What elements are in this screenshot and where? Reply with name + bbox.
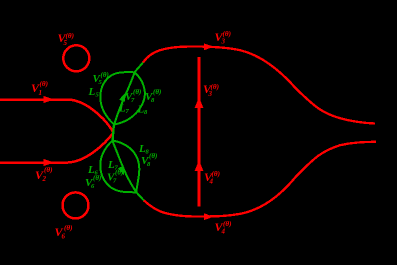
label V3 (top branch)	[215, 30, 232, 46]
green label V6 lower petal outer-left	[85, 174, 101, 190]
svg-text:(θ): (θ)	[66, 32, 75, 40]
label on vertical line upper	[203, 82, 219, 98]
svg-text:(θ): (θ)	[153, 88, 161, 96]
green lower stem to red branch	[136, 192, 144, 200]
red vertical line V	[198, 57, 201, 207]
svg-text:3: 3	[221, 38, 226, 46]
red circle bottom-left	[63, 192, 89, 218]
green label V7 lower petal inside	[107, 169, 123, 185]
green spine through cusp	[113, 124, 115, 142]
label V2 (lower-left line)	[35, 166, 53, 183]
svg-text:1: 1	[39, 89, 43, 97]
green lower petal left arc	[100, 141, 136, 193]
svg-text:6: 6	[91, 183, 95, 190]
svg-text:8: 8	[151, 97, 155, 104]
green upper petal left arc L5	[100, 72, 134, 124]
label on vertical line lower	[204, 170, 220, 186]
arrow on lower-left line	[44, 159, 55, 166]
red lower loop branch	[144, 142, 376, 217]
label V1 (upper-left line)	[31, 80, 48, 97]
svg-text:(θ): (θ)	[93, 174, 101, 182]
arrow on lower diagonal	[118, 166, 127, 176]
svg-text:7: 7	[113, 178, 117, 185]
svg-text:(θ): (θ)	[223, 30, 232, 38]
svg-text:8: 8	[147, 161, 151, 168]
svg-text:5: 5	[96, 92, 100, 99]
red circle top-left	[63, 45, 89, 71]
svg-text:(θ): (θ)	[223, 220, 232, 228]
svg-text:3: 3	[208, 90, 213, 98]
svg-text:(θ): (θ)	[212, 170, 221, 178]
svg-text:2: 2	[42, 175, 47, 183]
green upper diagonal L7	[114, 73, 135, 126]
green label L8 upper petal right	[137, 104, 149, 117]
green label V8 upper petal right	[145, 88, 161, 104]
lower arrow on vertical line	[195, 160, 204, 171]
green label L8 lower petal right	[138, 143, 150, 156]
svg-text:(θ): (θ)	[40, 80, 49, 88]
svg-text:(θ): (θ)	[101, 71, 109, 79]
green label L7 upper petal inside	[118, 103, 130, 116]
green label V7 upper petal inside	[125, 88, 141, 104]
upper arrow on vertical line	[195, 97, 204, 108]
label V5 (top circle)	[58, 31, 75, 47]
green upper petal right arc L8	[114, 73, 145, 125]
green label V8 lower petal right	[141, 152, 157, 168]
svg-text:4: 4	[221, 228, 226, 236]
red upper loop branch	[143, 47, 375, 124]
arrow on red lower branch	[204, 213, 214, 220]
svg-text:8: 8	[144, 109, 148, 116]
svg-text:7: 7	[126, 108, 130, 115]
green label L7 lower petal inside	[107, 159, 119, 172]
green upper stem to red branch	[135, 63, 144, 73]
svg-text:(θ): (θ)	[44, 166, 53, 174]
green label L5 upper petal outer-left	[88, 86, 100, 99]
arrow on upper diagonal	[119, 92, 128, 103]
svg-text:(θ): (θ)	[64, 224, 73, 232]
green label L6 lower petal outer-left	[87, 164, 99, 177]
svg-text:L: L	[88, 86, 96, 98]
label V4 (bottom branch)	[215, 220, 232, 236]
label V6 (bottom circle)	[55, 224, 73, 241]
svg-text:7: 7	[131, 97, 135, 104]
green lower diagonal	[113, 141, 137, 192]
svg-text:(θ): (θ)	[149, 152, 157, 160]
arrow on upper-left line	[44, 96, 55, 103]
svg-text:(θ): (θ)	[211, 83, 220, 91]
wire: lower-left incoming red line	[0, 133, 114, 163]
wire: upper-left incoming red line	[0, 100, 114, 133]
green label V5 upper petal outer-left	[93, 71, 109, 86]
svg-text:4: 4	[209, 178, 214, 186]
arrow on red upper branch	[204, 43, 214, 50]
green lower petal right arc	[113, 141, 140, 193]
svg-text:6: 6	[62, 233, 66, 241]
svg-text:(θ): (θ)	[133, 88, 141, 96]
svg-text:5: 5	[64, 39, 68, 47]
svg-text:(θ): (θ)	[115, 169, 123, 177]
